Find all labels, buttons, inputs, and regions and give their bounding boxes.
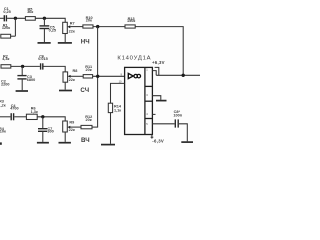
svg-text:20к: 20к — [86, 19, 92, 23]
svg-text:0.015: 0.015 — [38, 57, 48, 61]
+6.3V marker stub — [155, 67, 159, 75]
svg-text:К140УД1А: К140УД1А — [117, 56, 151, 62]
ground under R14 — [101, 144, 115, 146]
resistor R10 — [83, 25, 93, 28]
wire op-amp pin 10 to R14 — [111, 83, 125, 103]
capacitor C5 — [40, 26, 50, 29]
resistor R5 — [25, 17, 35, 21]
svg-text:ВЧ: ВЧ — [81, 137, 90, 144]
wire R10 to R13 — [93, 26, 125, 28]
resistor R12 — [81, 125, 92, 128]
ground under R7 — [58, 42, 72, 44]
svg-text:4700: 4700 — [10, 107, 18, 111]
output wire to edge — [156, 74, 200, 76]
op-amp infinity symbol — [134, 74, 141, 78]
wire R9 bottom to ground — [64, 132, 66, 142]
svg-text:20к: 20к — [86, 68, 92, 72]
svg-text:150к: 150к — [127, 19, 135, 23]
wire row3 input to C4 — [0, 116, 10, 118]
ground under C3 — [16, 90, 28, 92]
node A junction — [14, 17, 17, 20]
svg-text:R9: R9 — [69, 120, 74, 124]
resistor R1 — [1, 34, 11, 38]
wire node A down to R1 — [14, 18, 16, 36]
wire C5 to ground — [43, 29, 45, 43]
op-amp triangle symbol — [128, 73, 133, 78]
wire C4 to R6 — [14, 116, 26, 118]
-6.3V marker stub — [151, 135, 153, 139]
capacitor C6 — [41, 63, 43, 69]
capacitor C3 — [17, 76, 26, 79]
svg-text:1,1к: 1,1к — [114, 108, 121, 112]
wiper arrow R9 — [67, 126, 70, 129]
ground bottom-left partial — [0, 142, 2, 144]
svg-text:1,3к: 1,3к — [31, 110, 38, 114]
svg-text:6800: 6800 — [27, 78, 35, 82]
wire R11 to op-amp pin 9 — [93, 75, 125, 77]
wire C1 to R5 — [7, 17, 25, 19]
resistor R13 — [125, 25, 135, 28]
svg-text:22к: 22к — [69, 78, 75, 82]
node E junction — [41, 115, 44, 118]
wire R5 to corner into R7 — [35, 18, 65, 22]
svg-text:20к: 20к — [86, 118, 92, 122]
resistor R6 — [26, 114, 37, 119]
wire R12 to bus corner — [92, 126, 98, 128]
resistor R11 — [83, 75, 92, 78]
ground right of op-amp — [156, 100, 167, 102]
svg-text:R8: R8 — [73, 69, 78, 73]
wire R6 to corner into R9 — [37, 117, 65, 121]
output node junction — [182, 74, 185, 77]
wire row1 input to C1 — [0, 17, 4, 19]
svg-text:36к: 36к — [27, 10, 33, 14]
wire summing bus vertical — [97, 27, 99, 128]
capacitor C8 — [175, 119, 178, 127]
svg-text:22к: 22к — [69, 128, 75, 132]
svg-text:+6,3V: +6,3V — [152, 60, 165, 65]
svg-text:СЧ: СЧ — [80, 87, 89, 94]
capacitor C4 — [11, 113, 13, 120]
wire R7 bottom to ground — [64, 34, 66, 43]
wire node E down to C7 — [42, 117, 44, 128]
wire R8 bottom to ground — [64, 82, 66, 89]
wire R7 wiper to R10 — [70, 26, 83, 28]
feedback wire R13 to output node — [135, 27, 183, 76]
svg-text:0,25: 0,25 — [49, 29, 56, 33]
wire C8 to ground — [179, 124, 187, 142]
ground under R8 — [59, 90, 72, 92]
wire C6 to corner into R8 — [44, 66, 66, 72]
wire C7 to ground — [42, 131, 44, 142]
wire R1 right end stub — [11, 35, 16, 37]
wiper arrow R7 — [67, 25, 70, 28]
svg-text:R7: R7 — [70, 21, 75, 25]
svg-text:300: 300 — [47, 130, 53, 134]
wire op-amp pin 3 to ground — [152, 96, 160, 100]
svg-text:НЧ: НЧ — [81, 39, 90, 46]
wiper arrow R8 — [68, 75, 71, 78]
resistor R14 — [108, 103, 112, 112]
wire R8 wiper to R11 — [70, 75, 83, 77]
svg-text:2200: 2200 — [1, 82, 9, 86]
svg-text:1,2к: 1,2к — [0, 103, 6, 107]
wire R2 to C6 — [11, 65, 40, 67]
capacitor C1 — [4, 15, 6, 21]
wire output pin step — [152, 71, 156, 76]
wire node B down to C5 — [43, 18, 45, 25]
svg-text:100п: 100п — [173, 114, 182, 118]
ground under C8 — [181, 141, 193, 143]
svg-text:22к: 22к — [69, 29, 75, 33]
resistor R2 — [1, 65, 11, 68]
svg-text:120к: 120к — [2, 26, 10, 30]
node C junction — [21, 65, 24, 68]
wire node C down to C3 — [21, 66, 23, 75]
capacitor C7 — [38, 129, 47, 132]
potentiometer R9 — [63, 121, 68, 132]
potentiometer R7 — [63, 22, 68, 33]
op-amp U1 box — [125, 67, 153, 134]
svg-text:510к: 510к — [0, 130, 6, 134]
wire op-amp pin 5 to C8 — [152, 123, 174, 125]
svg-text:4,3к: 4,3к — [2, 57, 9, 61]
wire R9 wiper to R12 — [70, 126, 81, 128]
pin 4 stub — [152, 113, 155, 115]
svg-text:0,25: 0,25 — [3, 10, 10, 14]
node D junction on bus — [96, 75, 99, 78]
node B junction — [43, 17, 46, 20]
-6.3V tick — [151, 136, 154, 138]
ground under R9 — [59, 142, 71, 144]
summing node junction — [96, 25, 99, 28]
svg-text:-6,3V: -6,3V — [152, 139, 164, 144]
wire C3 to ground — [21, 79, 23, 90]
ground under C5 — [38, 42, 51, 44]
potentiometer R8 — [63, 72, 68, 82]
wire R14 to ground — [110, 113, 112, 144]
ground under C7 — [37, 142, 49, 144]
